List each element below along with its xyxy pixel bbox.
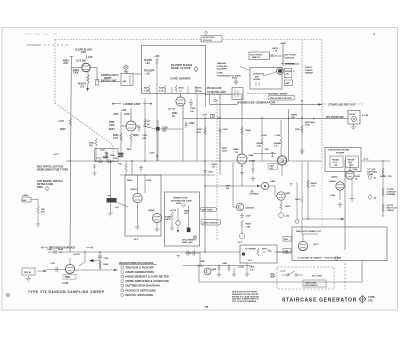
tube internals [154, 217, 160, 221]
resistor R263 [148, 85, 150, 92]
svg-text:1.5K: 1.5K [257, 145, 262, 147]
diamond: waveform marker [194, 67, 198, 72]
svg-text:+.05: +.05 [145, 73, 150, 76]
arrow on y=270 line [114, 269, 118, 271]
svg-text:DLYD TRIG: DLYD TRIG [203, 37, 214, 39]
svg-text:R489: R489 [200, 260, 206, 263]
ground: connector shell [351, 124, 356, 130]
diamond markers [368, 175, 372, 180]
svg-text:Q4 37: Q4 37 [313, 243, 320, 246]
wire: +100 feed vertical x=157 [156, 58, 158, 161]
wire: bottom-left row right y=270 [75, 269, 116, 271]
resistor R264 [164, 85, 166, 92]
svg-text:OSC: OSC [81, 51, 86, 54]
arrowhead on line [318, 103, 322, 105]
tube V24 cathode [84, 68, 89, 70]
svg-text:C434: C434 [330, 194, 336, 197]
svg-text:C244: C244 [110, 154, 116, 157]
vertical x=308 with resistor [307, 161, 309, 219]
rounded label: delayed trig [201, 220, 221, 226]
wire x=220 lower [219, 134, 221, 161]
small block on drop [95, 80, 98, 86]
svg-text:R261: R261 [172, 113, 178, 115]
svg-text:SIGNAL TO OTHR: SIGNAL TO OTHR [171, 67, 191, 70]
svg-text:R259: R259 [133, 135, 139, 137]
tube V24 grid bar [83, 65, 89, 67]
svg-text:WAVEFORM DIAGRAMS: WAVEFORM DIAGRAMS [119, 261, 154, 265]
tube V28 envelope [176, 97, 185, 106]
svg-text:C508: C508 [146, 180, 152, 182]
tube Q4340 [336, 182, 344, 190]
faint dashes upper left [25, 33, 57, 35]
svg-text:+125: +125 [121, 110, 127, 112]
wire box top right onward [133, 73, 142, 75]
wire: bottom-left row y=269.5 [46, 269, 66, 271]
svg-text:AMP IN: AMP IN [252, 56, 260, 59]
wire: to sample-hold box [99, 81, 121, 83]
ticks on x=383 column [382, 161, 385, 216]
wire: to C259 [143, 126, 156, 129]
svg-text:R4350: R4350 [380, 175, 387, 178]
svg-text:-12.2: -12.2 [133, 239, 139, 241]
wire: vertical x=183 [182, 118, 184, 161]
svg-text:1.5K: 1.5K [144, 90, 149, 92]
svg-text:+ M BT: + M BT [280, 43, 288, 45]
svg-text:-12.2: -12.2 [126, 149, 132, 151]
svg-text:C253: C253 [150, 153, 156, 155]
svg-text:+ 12W: + 12W [274, 135, 280, 137]
svg-text:PICKOFF: PICKOFF [203, 40, 213, 42]
dashed frame: left boundary vertical [54, 40, 56, 104]
small boxes right of B3 [284, 69, 292, 86]
tube V250 envelope [126, 121, 136, 131]
wire: tube V445 base to Q4473 [233, 162, 236, 207]
svg-text:AMPL Q84: AMPL Q84 [182, 241, 193, 244]
wire: left input stub [27, 44, 39, 46]
svg-text:2.7K: 2.7K [311, 186, 316, 188]
resistor x=262 [261, 138, 263, 146]
svg-text:TYPE: TYPE [368, 295, 375, 299]
svg-text:(-12): (-12) [285, 216, 290, 218]
svg-text:SQUARE: SQUARE [217, 68, 227, 71]
svg-text:+4.75: +4.75 [58, 120, 65, 123]
svg-text:NO CONN: NO CONN [312, 276, 322, 278]
junction dots on y=161 [95, 160, 97, 162]
resistor R251 [144, 119, 146, 127]
svg-text:R4546: R4546 [257, 142, 264, 145]
dark arrowhead pot [89, 259, 94, 262]
label: internal sweep dashes [247, 92, 267, 94]
wire: down from Q467 [280, 201, 282, 202]
svg-text:C447: C447 [246, 215, 252, 218]
tube V28B envelope [179, 102, 181, 104]
dashed frame: right vertical x=322 [321, 40, 323, 161]
wire: C259 to x=183 [160, 128, 183, 130]
wire: cathode down [130, 141, 132, 147]
svg-text:STAIRCASE REF OUT: STAIRCASE REF OUT [329, 102, 356, 106]
tunnel diode TD dark box [107, 198, 117, 203]
resistor R265 above tube [175, 85, 177, 92]
svg-text:SAMP: SAMP [165, 216, 172, 219]
svg-text:R470: R470 [286, 205, 292, 208]
wires to tubes [349, 161, 351, 171]
dashed frame: drop to bus [112, 145, 114, 162]
svg-text:1K: 1K [235, 152, 238, 154]
tube V460 [253, 117, 287, 176]
svg-text:TO SWEEP: TO SWEEP [245, 249, 257, 251]
wire: plate drops [137, 203, 139, 224]
svg-text:R437: R437 [222, 147, 228, 150]
svg-text:+12.2: +12.2 [96, 158, 102, 160]
wire: vertical x=121 [120, 112, 122, 150]
svg-text:C432: C432 [208, 171, 214, 174]
wire: tube top [302, 234, 304, 241]
svg-text:6GM8: 6GM8 [249, 160, 256, 162]
svg-text:CONTACT: CONTACT [387, 191, 398, 194]
svg-text:X3 7MHD: X3 7MHD [249, 194, 259, 196]
AND gate tags left [283, 237, 291, 242]
ground [36, 222, 41, 227]
svg-text:GATE: GATE [272, 47, 278, 50]
svg-text:68K: 68K [89, 145, 93, 147]
svg-text:47K: 47K [197, 131, 201, 134]
svg-text:4.7K: 4.7K [119, 155, 124, 158]
wire: box bottom to small box [206, 93, 233, 95]
svg-text:AMPL: AMPL [63, 60, 70, 63]
svg-text:TRIGGER: TRIGGER [217, 66, 227, 68]
wire: staircase generator output line y=104.3 [210, 103, 238, 105]
leader line inside [263, 72, 277, 76]
svg-text:SWP MAG: SWP MAG [367, 170, 378, 173]
rounded tag: sweep gate [201, 207, 217, 211]
wire: to switch [270, 55, 282, 57]
svg-text:TRACE: TRACE [305, 69, 313, 72]
junction dot [205, 93, 207, 95]
svg-text:27K: 27K [388, 176, 392, 178]
svg-text:+12.2: +12.2 [363, 159, 369, 161]
resistor left column [171, 212, 173, 220]
wire: plate up [130, 108, 132, 121]
svg-text:C452: C452 [269, 164, 275, 167]
svg-text:R477: R477 [262, 248, 268, 251]
svg-text:GATE SHAPER: GATE SHAPER [171, 77, 191, 81]
resistor R240 on x=68 [69, 118, 71, 126]
svg-text:C4 88: C4 88 [238, 266, 244, 269]
wire: plate up [69, 258, 71, 264]
arrow to -12.2 [86, 88, 89, 91]
svg-text:R4548: R4548 [274, 142, 281, 145]
svg-text:4.7K: 4.7K [210, 116, 215, 119]
svg-text:+300V: +300V [22, 195, 29, 197]
svg-text:HORIZON: HORIZON [285, 58, 295, 60]
cross wire y=153.3 [253, 152, 277, 154]
right column wire [188, 205, 190, 227]
svg-text:R4543: R4543 [291, 114, 298, 117]
test point circle [214, 99, 217, 102]
svg-text:TYPE 3T6 RANDOM SAMPLING SWEEP: TYPE 3T6 RANDOM SAMPLING SWEEP [28, 290, 105, 294]
left edge small parts [22, 197, 40, 227]
tube V24 envelope [82, 63, 90, 71]
svg-text:2.2K: 2.2K [159, 90, 164, 92]
wire diamond to box [125, 70, 127, 74]
dashed frame: top boundary of digital-unit section [55, 39, 322, 41]
svg-text:TOLERANCE OF GATE: TOLERANCE OF GATE [217, 74, 241, 77]
ground: ramp right [155, 226, 160, 232]
junction dots [218, 265, 220, 267]
svg-text:SWP NORM POSITION: SWP NORM POSITION [270, 98, 293, 100]
wire: right vertical x=345 [344, 160, 346, 250]
box: sweep gate integrator [165, 192, 200, 246]
svg-text:C444: C444 [248, 154, 254, 157]
junction node at x=288.5 [288, 117, 290, 119]
svg-text:+12.2: +12.2 [280, 271, 286, 273]
svg-text:R243: R243 [104, 263, 110, 266]
middle tubes column [205, 161, 299, 223]
svg-text:STAIRCASE GENERATOR: STAIRCASE GENERATOR [237, 101, 276, 105]
wire: bus continuation right of probe power box [361, 160, 390, 162]
terminal mark bottom left [6, 293, 9, 296]
tube V270 dark plug [277, 68, 284, 75]
logo diamond [359, 296, 366, 303]
svg-text:Q-P 47: Q-P 47 [168, 108, 176, 111]
wire: main horizontal bus y=161 [66, 160, 322, 162]
wire: vertical x=145 [144, 98, 146, 161]
diamond marker [182, 203, 186, 207]
svg-text:1M: 1M [147, 124, 150, 126]
stubs along box bottom [150, 86, 196, 94]
resistor column x=383 [382, 161, 384, 216]
connector J938 [348, 111, 360, 131]
wire: drop to staircase line [209, 94, 211, 104]
svg-text:-12.2: -12.2 [247, 260, 253, 262]
tick at bus top [70, 56, 74, 58]
svg-text:-12.2: -12.2 [237, 242, 243, 244]
svg-text:DLYD PICKOFF: DLYD PICKOFF [203, 223, 219, 225]
svg-text:SWP MAG: SWP MAG [305, 121, 316, 124]
capacitor C265 [189, 99, 193, 107]
wire: left vertical bus [70, 56, 71, 252]
svg-text:.001: .001 [162, 131, 167, 133]
svg-text:C243: C243 [104, 257, 110, 260]
svg-text:NORMAL: NORMAL [387, 193, 397, 196]
caps on row [217, 266, 221, 272]
wire: plate up [241, 137, 243, 154]
ground: lower limit [119, 150, 124, 156]
svg-text:R265: R265 [179, 88, 185, 90]
svg-text:R444: R444 [246, 129, 252, 132]
svg-text:-12.2: -12.2 [348, 162, 352, 164]
ground x=352 [350, 196, 355, 202]
capacitor C432 on center vertical [203, 171, 207, 187]
resistor [301, 125, 303, 133]
wire: center vertical x=205 [204, 118, 206, 252]
svg-text:1 B: 1 B [250, 269, 254, 271]
dashed frame: diagonal boundary [55, 103, 113, 145]
dashed right vertical continuation [344, 263, 346, 289]
svg-text:TO 4TH: TO 4TH [387, 188, 395, 191]
svg-text:R445: R445 [233, 148, 239, 151]
wire: left grid lead [71, 67, 82, 69]
svg-text:Q5063: Q5063 [130, 189, 137, 191]
svg-text:+4.75V: +4.75V [170, 209, 177, 212]
wire: plate stub up [85, 55, 87, 60]
svg-text:76: 76 [205, 305, 209, 309]
svg-text:NO POINT IN WAVE: NO POINT IN WAVE [171, 64, 193, 67]
svg-text:Q488: Q488 [211, 268, 217, 271]
svg-text:STAIRCASE: STAIRCASE [305, 281, 317, 284]
svg-text:4 TVM: 4 TVM [362, 114, 368, 117]
junction dots [204, 117, 206, 119]
tube V445 [204, 127, 284, 186]
wire: riser to box at right x=362 [361, 261, 363, 282]
column x=302 components [300, 100, 305, 155]
svg-text:R263: R263 [159, 88, 165, 90]
svg-text:Q4354: Q4354 [331, 176, 338, 179]
svg-text:LOWER LIMIT: LOWER LIMIT [124, 102, 142, 106]
relay box D40 [232, 88, 243, 100]
tube Q467 [277, 192, 285, 200]
svg-text:R484: R484 [184, 210, 190, 213]
wire: tube right to x=97 drop [90, 68, 97, 82]
svg-text:R439: R439 [212, 163, 218, 166]
svg-text:EXT HORIZ: EXT HORIZ [285, 54, 297, 56]
svg-text:RAMP GENERATORS: RAMP GENERATORS [126, 270, 155, 274]
svg-text:R4340: R4340 [311, 182, 318, 185]
label box: DLY'D TRIG pickoff [201, 36, 222, 43]
svg-text:SAWTOOTH SWEEP OUT: SAWTOOTH SWEEP OUT [296, 230, 322, 233]
svg-text:10K: 10K [226, 188, 230, 190]
svg-text:MULTI: MULTI [305, 67, 312, 69]
resistor R247 [87, 75, 89, 83]
svg-text:R240: R240 [58, 248, 64, 251]
junction dot on bus [217, 117, 219, 119]
leader line [240, 67, 250, 70]
svg-text:R258: R258 [113, 135, 119, 137]
inline beads on bus [99, 160, 102, 163]
capacitor between [139, 165, 143, 172]
svg-text:100K: 100K [109, 125, 115, 127]
vertical x=297 with TP [296, 182, 298, 220]
ground [300, 148, 305, 154]
caps cluster x=253 [251, 166, 255, 173]
dashed label: precision staircase generator [41, 247, 93, 249]
capacitor C262 [184, 121, 188, 128]
capacitor C256 [137, 125, 141, 132]
svg-text:+.65: +.65 [145, 62, 150, 65]
resistor above [241, 127, 243, 135]
junction dot [69, 160, 71, 162]
circled terminal [193, 236, 197, 240]
svg-text:1K: 1K [172, 116, 175, 118]
svg-text:SWP: SWP [285, 83, 290, 85]
svg-text:7586: 7586 [65, 276, 71, 279]
svg-text:MODE AMPLIFIER & STAIRCASE: MODE AMPLIFIER & STAIRCASE [126, 279, 170, 283]
wire: lower output line y=282 [199, 281, 362, 283]
svg-text:R506: R506 [127, 180, 133, 182]
svg-text:C241: C241 [50, 262, 56, 265]
diamond marker [124, 65, 129, 70]
wire x=85 [84, 252, 86, 262]
svg-text:R255: R255 [109, 122, 115, 124]
wire: tube drop [182, 105, 184, 118]
svg-text:10K: 10K [291, 117, 295, 119]
dashed frame: x=322 lower extension [321, 161, 323, 227]
svg-text:TERMINAL: TERMINAL [285, 63, 296, 66]
diamond marker upper [234, 80, 238, 85]
svg-text:C240: C240 [47, 248, 53, 251]
wire: dashed stub continuation [39, 44, 70, 46]
svg-text:80V STAIRCASE: 80V STAIRCASE [326, 116, 344, 119]
svg-text:Q4473B: Q4473B [246, 207, 255, 210]
heater arc [67, 272, 73, 273]
ground: TD [108, 210, 113, 216]
svg-text:POWER: POWER [336, 153, 345, 155]
svg-text:Q4340: Q4340 [329, 180, 336, 183]
right network: cap + resistor at x=100 [98, 256, 102, 258]
svg-text:L250: L250 [113, 114, 119, 116]
svg-text:R433: R433 [295, 198, 301, 201]
wire: component row y=265.5 [183, 265, 252, 267]
resistor R259 [130, 133, 132, 141]
resistor [37, 206, 39, 214]
vertical x=200 [199, 252, 201, 266]
label: LOWER LIMIT with arrows [112, 103, 152, 105]
junction ticks [156, 60, 159, 63]
wire: dashed center vertical x=217 [216, 100, 218, 240]
svg-text:SEMICONDUCTOR TYPES: SEMICONDUCTOR TYPES [37, 169, 69, 172]
wire: between [269, 185, 275, 187]
wire: vertical x=288.5 lower [288, 109, 290, 161]
crossed circle terminal left [270, 273, 274, 277]
wire: precision staircase line y=252 [70, 251, 240, 253]
tube V445 envelope [237, 154, 247, 164]
wire to Q465 [205, 185, 261, 187]
svg-text:R431: R431 [197, 128, 203, 131]
tube V250 internals [128, 125, 135, 129]
svg-text:C489: C489 [250, 266, 256, 269]
box: horizontal display (tunnel diode) [250, 68, 283, 90]
transistor middle [176, 221, 180, 225]
svg-text:TRIGGER & PICKOFF: TRIGGER & PICKOFF [126, 265, 155, 269]
tube V28 internals [178, 100, 184, 103]
svg-text:INTERNAL SWEEP: INTERNAL SWEEP [268, 92, 288, 95]
transistor Q below [204, 268, 211, 275]
wire: vertical x=283 switch column [282, 43, 284, 66]
circled terminal [239, 233, 244, 238]
svg-text:+12.2: +12.2 [332, 162, 337, 164]
svg-text:C3X: C3X [88, 57, 93, 59]
cluster above bus left of ramp box [95, 138, 109, 161]
resistor x=281 [280, 138, 282, 146]
svg-text:R448: R448 [246, 223, 252, 226]
wire: pulse-gate line y=94 [207, 93, 242, 95]
wire: tube to cap [136, 125, 139, 127]
svg-text:TRIG IN: TRIG IN [24, 272, 32, 274]
svg-text:C245: C245 [103, 156, 109, 159]
svg-text:C440: C440 [353, 168, 359, 171]
box: sweep output amplifier [292, 227, 387, 261]
circled terminal [279, 213, 284, 218]
svg-text:R245: R245 [89, 142, 95, 145]
svg-text:82K: 82K [265, 149, 269, 151]
wire: vertical x=220 [219, 94, 221, 175]
svg-text:+4.75: +4.75 [53, 153, 59, 156]
resistor below Q467 [280, 202, 282, 210]
dark component [187, 228, 191, 233]
resistor R448 [241, 220, 243, 228]
svg-text:HORIZ DIS: HORIZ DIS [253, 74, 265, 76]
wire: right edge drop [205, 94, 207, 108]
